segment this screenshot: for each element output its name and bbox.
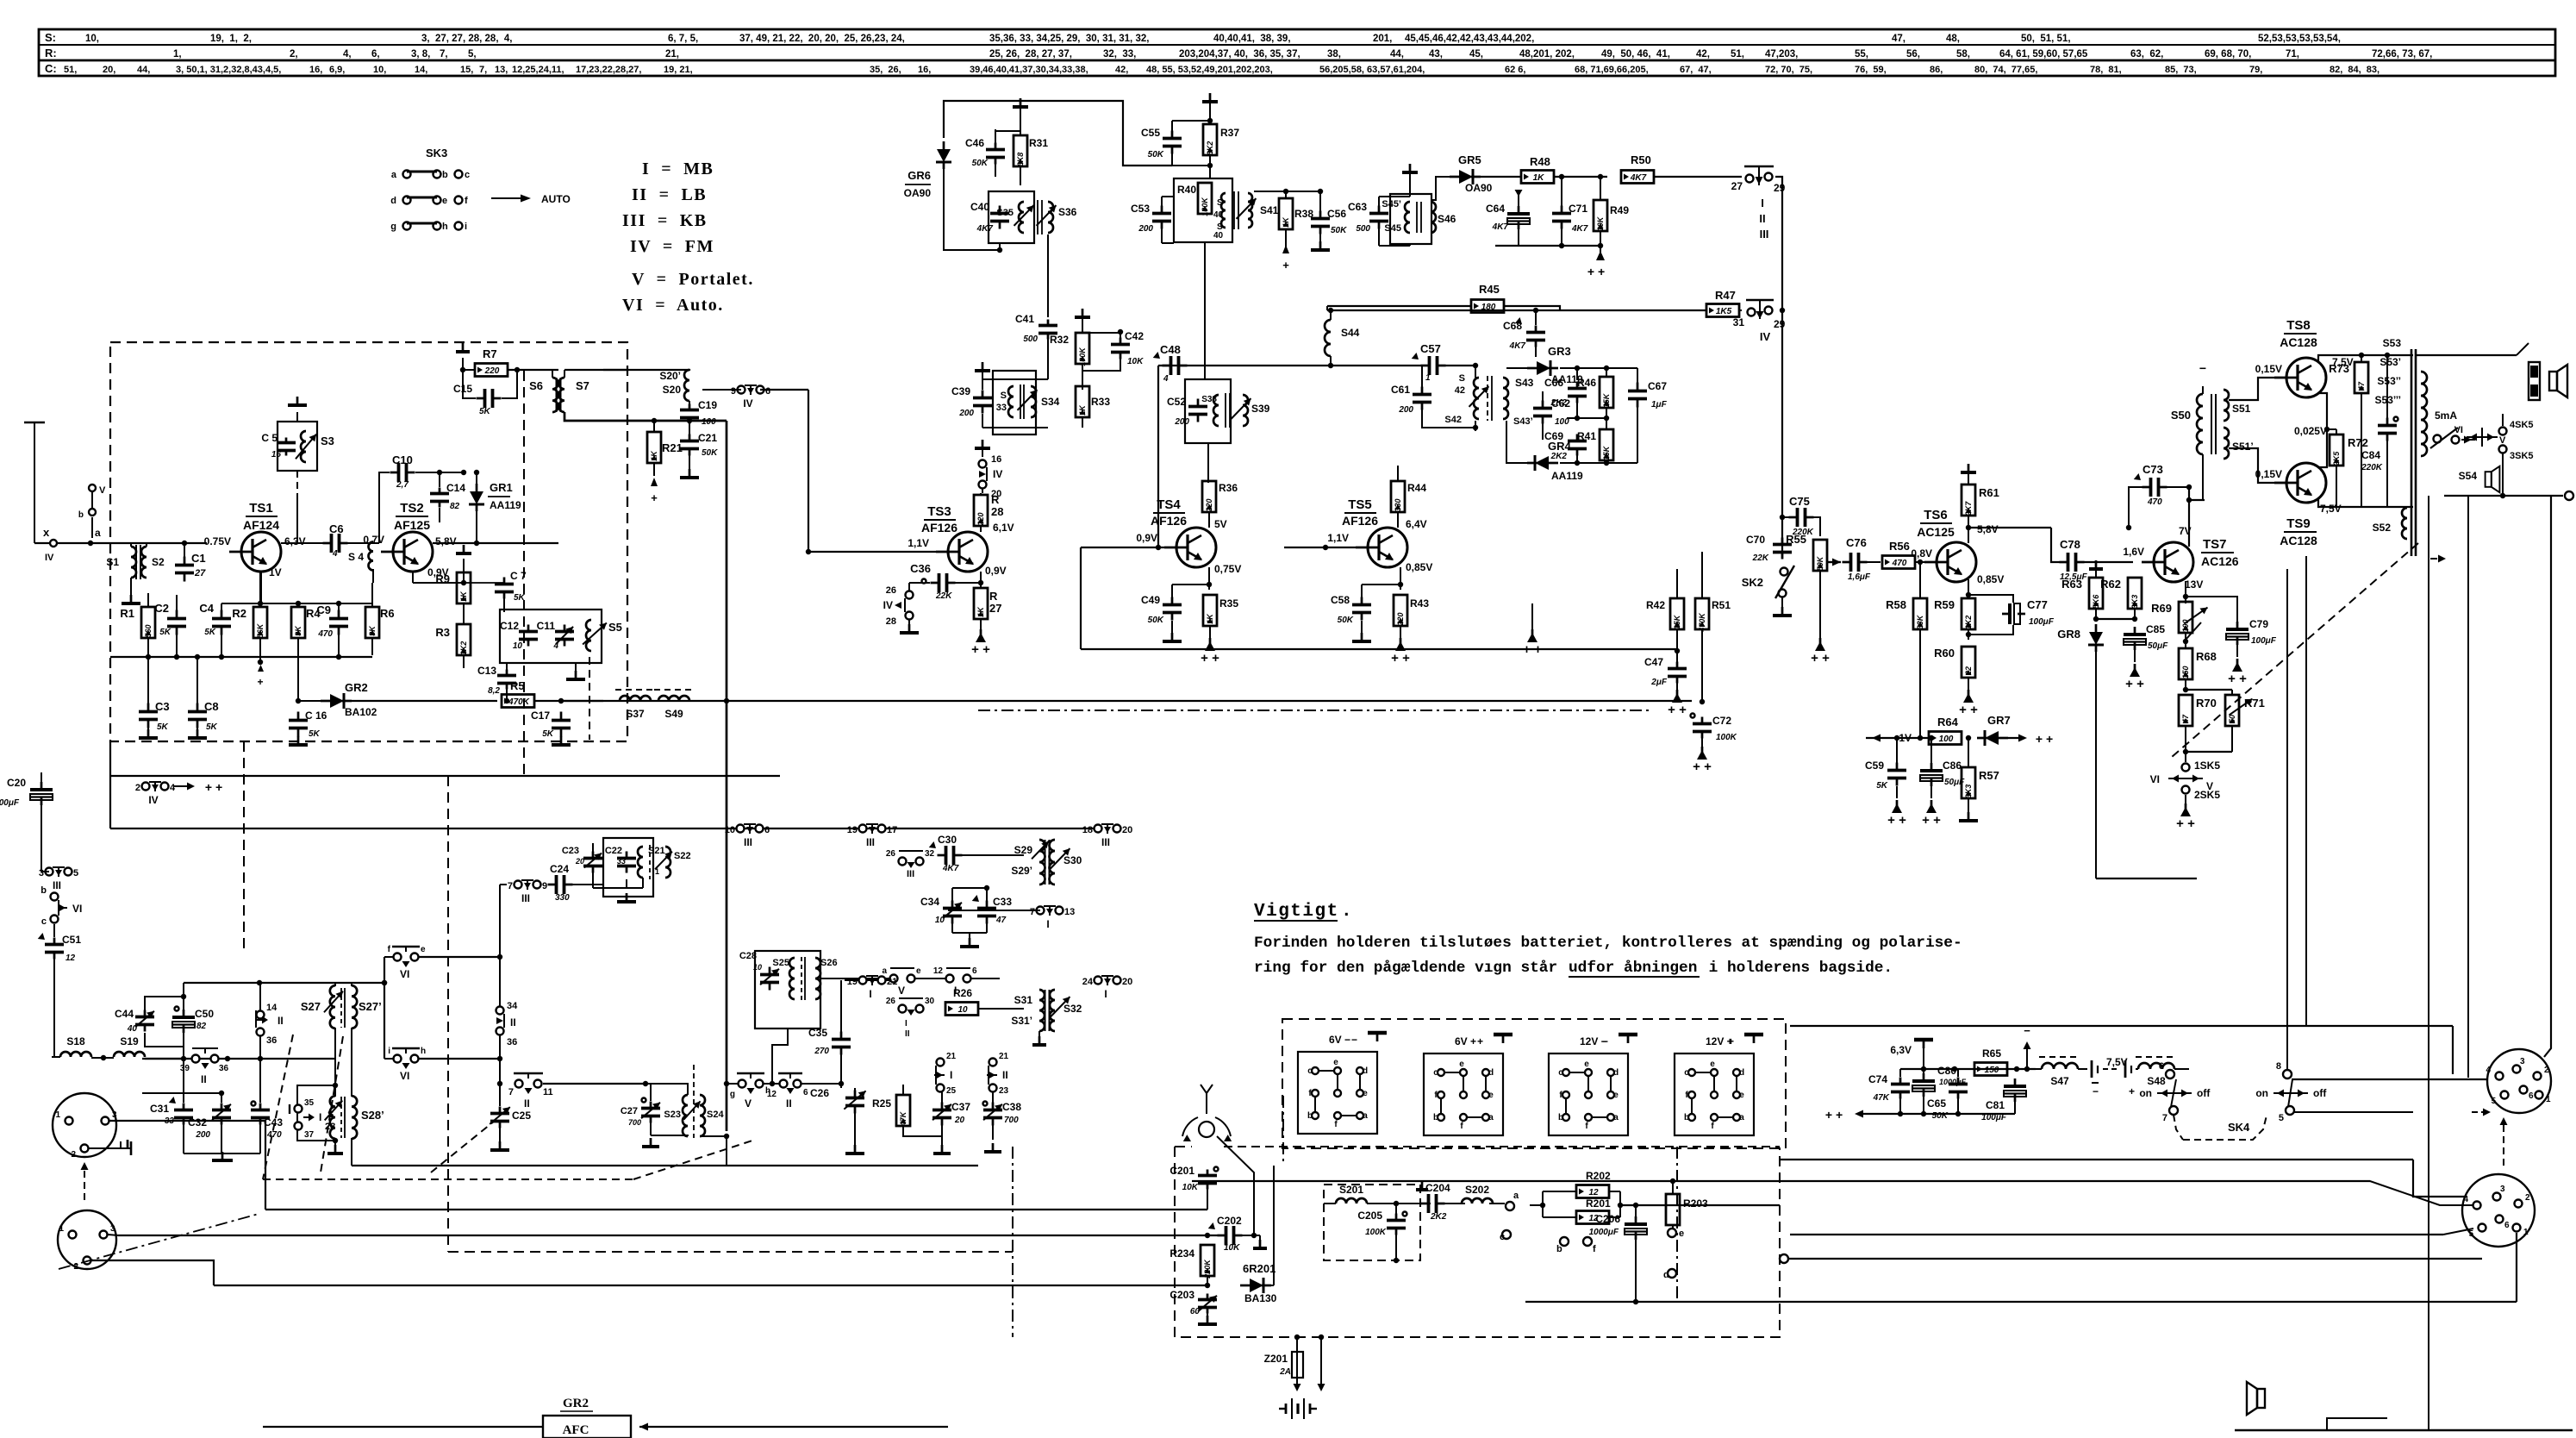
svg-text:C38: C38 bbox=[1002, 1101, 1021, 1113]
svg-text:52,53,53,53,53,54,: 52,53,53,53,53,54, bbox=[2258, 34, 2341, 44]
svg-text:C74: C74 bbox=[1868, 1073, 1887, 1085]
coil S22 bbox=[665, 847, 671, 878]
capacitor C16 bbox=[297, 712, 300, 721]
wire C63 top bbox=[1378, 197, 1380, 207]
wire base TS2 bias bbox=[221, 603, 372, 604]
svg-text:AC125: AC125 bbox=[1917, 525, 1955, 539]
svg-text:c: c bbox=[1500, 1232, 1505, 1242]
svg-text:3: 3 bbox=[2500, 1185, 2505, 1194]
resistor R40 bbox=[1198, 183, 1212, 214]
svg-text:72,66, 73, 67,: 72,66, 73, 67, bbox=[2372, 49, 2432, 59]
svg-text:42,: 42, bbox=[1696, 49, 1710, 59]
svg-text:2: 2 bbox=[2525, 1193, 2530, 1203]
svg-text:II: II bbox=[201, 1073, 207, 1085]
svg-text:45,: 45, bbox=[1469, 49, 1483, 59]
svg-text:43,: 43, bbox=[1429, 49, 1443, 59]
svg-text:S27: S27 bbox=[301, 1000, 321, 1013]
svg-text:Forinden holderen tilslutøes b: Forinden holderen tilslutøes batteriet, … bbox=[1254, 935, 1962, 952]
svg-text:AC126: AC126 bbox=[2201, 554, 2239, 568]
wire from left loop to R37 node bbox=[1123, 164, 1172, 166]
svg-text:6,3V: 6,3V bbox=[1890, 1044, 1912, 1056]
contact 39 II 36 bbox=[192, 1055, 200, 1063]
svg-text:6, 7, 5,: 6, 7, 5, bbox=[668, 34, 698, 44]
wire S51 to TS8 base bbox=[2229, 378, 2286, 400]
svg-text:5K: 5K bbox=[1876, 781, 1888, 791]
svg-text:7,5V: 7,5V bbox=[2320, 503, 2342, 515]
svg-text:33: 33 bbox=[617, 857, 626, 866]
wire TS8 emitter / TS9 emitter join bbox=[2318, 393, 2327, 467]
connector plug right 1 bbox=[2487, 1049, 2551, 1113]
svg-text:R203: R203 bbox=[1683, 1197, 1708, 1210]
svg-text:TS9: TS9 bbox=[2286, 516, 2311, 531]
svg-text:S24: S24 bbox=[707, 1110, 724, 1120]
svg-text:28: 28 bbox=[325, 1122, 335, 1132]
contact 21 I 25 bbox=[937, 1059, 945, 1066]
IF box C12 C11 S5 bbox=[500, 610, 602, 663]
wire TS5 base bbox=[1284, 547, 1356, 548]
svg-text:6,: 6, bbox=[371, 49, 380, 59]
wire to SK5 contacts bbox=[2185, 752, 2186, 762]
svg-text:C22: C22 bbox=[605, 846, 622, 856]
svg-text:2K2: 2K2 bbox=[1550, 452, 1568, 461]
svg-text:d: d bbox=[1613, 1068, 1619, 1078]
svg-text:3: 3 bbox=[110, 1224, 115, 1234]
svg-text:S41: S41 bbox=[1260, 204, 1279, 216]
svg-text:5: 5 bbox=[2468, 1229, 2473, 1239]
svg-text:13V: 13V bbox=[2185, 578, 2203, 591]
inner dashed partition bbox=[523, 371, 525, 776]
contact d bbox=[1668, 1269, 1676, 1278]
svg-text:II: II bbox=[1759, 212, 1765, 225]
coil S202 bbox=[1462, 1198, 1493, 1204]
capacitor C35 bbox=[840, 1032, 843, 1040]
wire bbox=[352, 700, 497, 702]
capacitor C4 bbox=[221, 610, 223, 619]
IF can S21 S22 bbox=[603, 838, 653, 897]
transformer S1 S2 bbox=[131, 547, 136, 578]
svg-text:3SK5: 3SK5 bbox=[2510, 451, 2534, 461]
driver transformer S50 S51 bbox=[2197, 394, 2203, 454]
svg-text:e: e bbox=[1363, 1089, 1368, 1098]
resistor R1 bbox=[141, 607, 155, 638]
dashed arrow into plug1 bbox=[84, 1166, 85, 1200]
capacitor C65 bbox=[1957, 1078, 1960, 1085]
capacitor C56 bbox=[1319, 211, 1322, 219]
resistor R59 bbox=[1962, 598, 1975, 629]
contact b bbox=[1560, 1237, 1569, 1246]
svg-text:e: e bbox=[421, 945, 426, 954]
svg-text:29: 29 bbox=[1774, 318, 1786, 330]
svg-text:R36: R36 bbox=[1219, 482, 1238, 494]
capacitor C33 bbox=[986, 901, 989, 909]
svg-text:b: b bbox=[1558, 1113, 1563, 1122]
svg-text:21: 21 bbox=[946, 1052, 957, 1061]
capacitor C31 bbox=[183, 1104, 185, 1110]
svg-text:3, 50,1, 31,2,32,8,43,4,5,: 3, 50,1, 31,2,32,8,43,4,5, bbox=[176, 65, 281, 75]
resistor R58 bbox=[1913, 598, 1927, 629]
wire TS5 emitter bbox=[1400, 567, 1401, 590]
svg-text:1SK5: 1SK5 bbox=[2194, 760, 2220, 772]
can1 grounds bbox=[626, 879, 627, 888]
svg-text:28: 28 bbox=[886, 616, 896, 627]
bus wire 2 left bbox=[118, 1235, 1218, 1236]
svg-text:R38: R38 bbox=[1294, 208, 1313, 220]
wire into box bbox=[1207, 1204, 1324, 1210]
svg-text:19: 19 bbox=[847, 825, 858, 835]
ground plug1 bbox=[89, 1141, 121, 1148]
wire plug2 pin2 to bus3 bbox=[91, 1260, 214, 1285]
svg-text:5,: 5, bbox=[468, 49, 477, 59]
transformer S27 S27prime bbox=[330, 985, 335, 1028]
svg-text:C28: C28 bbox=[739, 951, 757, 961]
resistor R49 bbox=[1594, 200, 1607, 231]
svg-text:AF124: AF124 bbox=[243, 518, 279, 532]
wire plug1 pin3 bbox=[109, 1121, 265, 1210]
svg-text:R46: R46 bbox=[1577, 377, 1596, 389]
wire S32 up bbox=[1055, 980, 1069, 990]
svg-text:C32: C32 bbox=[188, 1116, 207, 1129]
svg-text:1000μF: 1000μF bbox=[1589, 1228, 1619, 1237]
svg-text:R1: R1 bbox=[120, 607, 134, 620]
svg-text:h: h bbox=[442, 222, 448, 232]
svg-text:on: on bbox=[2139, 1087, 2152, 1099]
capacitor C34 bbox=[951, 901, 954, 909]
svg-text:36: 36 bbox=[219, 1064, 229, 1073]
contact 2SK5 bbox=[2182, 786, 2190, 794]
capacitor C57 bbox=[1421, 365, 1430, 367]
svg-text:200: 200 bbox=[958, 409, 974, 418]
capacitor C202 bbox=[1218, 1235, 1226, 1237]
svg-text:S3: S3 bbox=[321, 435, 334, 447]
IF can box S45 bbox=[1390, 194, 1431, 244]
svg-text:AUTO: AUTO bbox=[541, 193, 571, 205]
wire contacts to caps bbox=[902, 1092, 940, 1102]
svg-text:d: d bbox=[1488, 1068, 1494, 1078]
svg-text:470: 470 bbox=[2147, 497, 2162, 507]
wire y925 contact rail bbox=[52, 828, 728, 830]
contact 7 II 11 bbox=[515, 1080, 523, 1088]
svg-text:h: h bbox=[421, 1047, 426, 1056]
svg-text:C64: C64 bbox=[1486, 203, 1505, 215]
svg-text:39,46,40,41,37,30,34,33,38,: 39,46,40,41,37,30,34,33,38, bbox=[970, 65, 1088, 75]
svg-text:C42: C42 bbox=[1125, 330, 1144, 342]
svg-text:C14: C14 bbox=[446, 482, 465, 494]
svg-text:7: 7 bbox=[1030, 907, 1035, 917]
capacitor C6 bbox=[323, 542, 332, 545]
svg-text:on: on bbox=[2255, 1087, 2268, 1099]
capacitor C81 electrolytic bbox=[2014, 1078, 2017, 1086]
svg-text:R42: R42 bbox=[1646, 599, 1665, 611]
bottom rail y1352 bbox=[352, 1165, 978, 1166]
svg-text:R45: R45 bbox=[1479, 283, 1500, 296]
svg-text:C39: C39 bbox=[951, 385, 970, 397]
riser from left box bbox=[727, 776, 729, 828]
svg-text:C65: C65 bbox=[1927, 1097, 1946, 1110]
resistor R65 bbox=[1974, 1063, 2007, 1076]
svg-text:C78: C78 bbox=[2060, 538, 2080, 551]
svg-text:R: R bbox=[991, 493, 1000, 506]
svg-text:S31: S31 bbox=[1014, 994, 1033, 1006]
capacitor C43 bbox=[259, 1104, 262, 1110]
contact 19 III 17 bbox=[859, 825, 867, 833]
wire top rail switch matrix bbox=[110, 828, 1094, 829]
svg-text:50K: 50K bbox=[972, 159, 989, 168]
svg-text:VI: VI bbox=[2454, 425, 2463, 435]
svg-text:II: II bbox=[786, 1097, 792, 1110]
svg-text:C30: C30 bbox=[938, 834, 957, 846]
wire TS3 collector to can2 bbox=[987, 517, 989, 532]
svg-text:R49: R49 bbox=[1610, 204, 1629, 216]
svg-text:IV: IV bbox=[883, 599, 893, 611]
svg-text:S53’’’: S53’’’ bbox=[2375, 394, 2401, 406]
transformer S31 S32 bbox=[1039, 990, 1045, 1031]
diode GR4 AA119 bbox=[1535, 456, 1549, 470]
capacitor C86 bbox=[1930, 763, 1933, 771]
coil S26 bbox=[815, 958, 820, 999]
riser can2 down bbox=[771, 1028, 773, 1084]
svg-text:1: 1 bbox=[2523, 1228, 2529, 1237]
bottom right corner wiring bbox=[2235, 1429, 2573, 1431]
diode GR6 OA90 bbox=[937, 149, 951, 162]
IF can S25 S26 bbox=[755, 951, 820, 1028]
svg-text:d: d bbox=[390, 196, 396, 206]
capacitor C80 electrolytic bbox=[1923, 1073, 1925, 1081]
svg-text:TS5: TS5 bbox=[1348, 497, 1372, 512]
ground S1 bbox=[130, 578, 132, 595]
svg-text:42,: 42, bbox=[1115, 65, 1128, 75]
svg-text:−: − bbox=[2199, 361, 2206, 375]
svg-text:e: e bbox=[1584, 1060, 1589, 1069]
svg-text:7,: 7, bbox=[440, 49, 448, 59]
wire sw2 bottom to connector bbox=[2317, 1110, 2453, 1111]
wire ground arrow mid bbox=[1531, 629, 1534, 636]
wire to AFC box bbox=[263, 1426, 543, 1428]
svg-text:C 5: C 5 bbox=[261, 432, 278, 444]
svg-text:270: 270 bbox=[814, 1047, 829, 1056]
svg-text:S2: S2 bbox=[152, 556, 165, 568]
bus wire 1 left bbox=[265, 1209, 1207, 1210]
bus wires right side bbox=[1780, 1159, 2413, 1160]
wire can2 top bbox=[982, 378, 1048, 380]
wire can1 top bbox=[592, 843, 594, 852]
rail row3 y1257 bbox=[500, 1083, 646, 1085]
svg-text:off: off bbox=[2197, 1087, 2211, 1099]
coil S38 bbox=[1213, 395, 1219, 426]
riser x845 to S21 can bbox=[602, 776, 604, 828]
svg-text:C:: C: bbox=[45, 62, 57, 75]
svg-text:R57: R57 bbox=[1979, 769, 1999, 782]
svg-text:OA90: OA90 bbox=[904, 187, 932, 199]
svg-text:R6: R6 bbox=[380, 607, 395, 620]
resistor R61 bbox=[1962, 485, 1975, 516]
junction bbox=[258, 660, 263, 665]
svg-text:6: 6 bbox=[2159, 1061, 2164, 1072]
svg-text:S26: S26 bbox=[820, 958, 838, 968]
svg-text:22K: 22K bbox=[935, 591, 952, 601]
wire y900 horizontal bbox=[110, 775, 780, 777]
capacitor C206 bbox=[1635, 1216, 1637, 1224]
wire to TS3 base bbox=[808, 390, 936, 552]
svg-text:R25: R25 bbox=[872, 1097, 891, 1110]
contact f VI e bbox=[394, 953, 402, 961]
wire S27 to S28 bbox=[334, 1028, 336, 1097]
svg-text:R44: R44 bbox=[1407, 482, 1426, 494]
resistor R64 bbox=[1929, 732, 1962, 745]
svg-text:C 16: C 16 bbox=[305, 710, 327, 722]
svg-text:2,7: 2,7 bbox=[396, 480, 409, 490]
svg-text:45,45,46,42,42,43,43,44,202,: 45,45,46,42,42,43,43,44,202, bbox=[1405, 34, 1534, 44]
filter dashed box S201 C205 bbox=[1324, 1185, 1420, 1260]
svg-text:S20’: S20’ bbox=[659, 370, 681, 382]
svg-text:R31: R31 bbox=[1029, 137, 1048, 149]
IF can box S33 S34 bbox=[993, 371, 1036, 435]
svg-text:S51: S51 bbox=[2232, 403, 2251, 415]
capacitor C58 bbox=[1361, 597, 1363, 605]
svg-text:10K: 10K bbox=[1127, 357, 1144, 366]
svg-text:3, 8,: 3, 8, bbox=[411, 49, 430, 59]
resistor R69 preset bbox=[2179, 602, 2192, 633]
capacitor C40 bbox=[999, 206, 1001, 214]
svg-text:GR5: GR5 bbox=[1458, 153, 1481, 166]
svg-text:.: . bbox=[1341, 902, 1352, 922]
svg-text:+: + bbox=[1477, 1035, 1483, 1047]
svg-text:21: 21 bbox=[999, 1052, 1009, 1061]
capacitor C8 bbox=[196, 703, 199, 712]
switch SK3 contacts row d-e-f bbox=[403, 197, 411, 204]
capacitor C12 bbox=[527, 625, 530, 632]
svg-text:R5: R5 bbox=[510, 679, 525, 692]
svg-text:4: 4 bbox=[1163, 374, 1169, 384]
svg-text:ring for den pågældende vıgn s: ring for den pågældende vıgn står bbox=[1254, 960, 1567, 977]
svg-text:12: 12 bbox=[767, 1090, 777, 1099]
svg-text:5K: 5K bbox=[157, 722, 169, 732]
resistor R21 bbox=[647, 432, 661, 463]
svg-text:I = MB: I = MB bbox=[642, 159, 714, 178]
svg-text:2: 2 bbox=[135, 783, 140, 793]
svg-text:AC128: AC128 bbox=[2280, 534, 2317, 547]
risers can2 bbox=[754, 979, 756, 981]
svg-text:C53: C53 bbox=[1131, 203, 1150, 215]
arrow supply left bbox=[174, 785, 191, 787]
svg-text:1K5: 1K5 bbox=[1716, 307, 1732, 316]
coil S33 bbox=[1008, 386, 1014, 417]
svg-text:82: 82 bbox=[196, 1022, 207, 1031]
supply arrow under R49 bbox=[1596, 251, 1605, 260]
svg-text:d: d bbox=[1663, 1270, 1669, 1280]
capacitor C15 bbox=[477, 397, 485, 400]
svg-text:I: I bbox=[319, 1111, 321, 1123]
capacitor C19 bbox=[689, 404, 691, 410]
svg-text:7,: 7, bbox=[479, 65, 487, 75]
wiring C33 C34 bbox=[951, 888, 953, 901]
svg-text:C26: C26 bbox=[810, 1087, 829, 1099]
svg-text:42: 42 bbox=[1455, 385, 1465, 396]
capacitor C74 bbox=[1899, 1078, 1902, 1085]
dashed gang to C25 bbox=[431, 1121, 495, 1172]
svg-text:C25: C25 bbox=[512, 1110, 531, 1122]
svg-text:S30: S30 bbox=[1063, 854, 1082, 866]
svg-text:44,: 44, bbox=[137, 65, 150, 75]
svg-text:C77: C77 bbox=[2027, 598, 2048, 611]
coil S48 bbox=[2138, 1063, 2174, 1069]
capacitor C2 bbox=[176, 610, 178, 619]
svg-text:20: 20 bbox=[954, 1116, 965, 1125]
resistor R9 bbox=[457, 572, 471, 603]
svg-text:C75: C75 bbox=[1789, 495, 1810, 508]
svg-text:10K: 10K bbox=[1182, 1183, 1199, 1192]
svg-text:2: 2 bbox=[71, 1150, 76, 1160]
svg-text:a: a bbox=[95, 527, 101, 539]
svg-text:0,75V: 0,75V bbox=[1214, 563, 1241, 575]
svg-text:e: e bbox=[1613, 1091, 1619, 1100]
svg-text:S5: S5 bbox=[608, 621, 622, 634]
svg-text:C59: C59 bbox=[1865, 760, 1884, 772]
vertical speaker feedback bbox=[2305, 556, 2307, 1026]
svg-text:a: a bbox=[882, 966, 887, 976]
svg-text:1: 1 bbox=[655, 867, 659, 876]
svg-text:21: 21 bbox=[887, 977, 897, 987]
svg-text:C19: C19 bbox=[698, 399, 717, 411]
resistor R28 bbox=[974, 495, 988, 526]
svg-text:22K: 22K bbox=[1752, 553, 1769, 563]
svg-text:0,85V: 0,85V bbox=[1977, 573, 2004, 585]
svg-text:R40: R40 bbox=[1177, 184, 1196, 196]
svg-text:d: d bbox=[1739, 1068, 1744, 1078]
svg-text:470: 470 bbox=[266, 1130, 282, 1140]
contact 7 I 13 bbox=[1037, 907, 1045, 915]
svg-text:10: 10 bbox=[753, 963, 762, 972]
capacitor C24 bbox=[548, 884, 557, 886]
wiring C44 C50 loop bbox=[145, 997, 184, 1010]
svg-text:C4: C4 bbox=[199, 602, 214, 615]
svg-text:100μF: 100μF bbox=[0, 798, 20, 808]
svg-text:16,: 16, bbox=[918, 65, 931, 75]
svg-text:C63: C63 bbox=[1348, 201, 1367, 213]
transistor TS3 AF126 bbox=[948, 532, 988, 572]
svg-text:31: 31 bbox=[1733, 316, 1745, 328]
svg-text:b: b bbox=[1556, 1244, 1562, 1254]
wire bus riser 1 bbox=[726, 421, 728, 1131]
capacitor C47 bbox=[1676, 662, 1679, 669]
svg-text:700: 700 bbox=[1004, 1116, 1019, 1125]
svg-text:TS1: TS1 bbox=[249, 501, 273, 516]
coil S21 bbox=[638, 847, 643, 878]
coil S34 bbox=[1031, 386, 1036, 417]
wire transformer taps bbox=[2421, 355, 2446, 372]
wire TS2 emitter to R9 bbox=[412, 572, 414, 583]
svg-text:C12: C12 bbox=[500, 620, 519, 632]
capacitor C52 bbox=[1197, 399, 1200, 407]
coil S25 bbox=[789, 958, 795, 999]
wires to speaker bottom bbox=[2257, 1358, 2259, 1383]
svg-text:GR6: GR6 bbox=[908, 169, 931, 182]
svg-text:C46: C46 bbox=[965, 137, 984, 149]
battery polarity dashed box bbox=[1282, 1019, 1786, 1148]
resistor R35 bbox=[1203, 595, 1217, 626]
wire GR6 to can bbox=[944, 191, 1000, 250]
wire TS7 collector bbox=[2188, 487, 2190, 547]
svg-text:VI: VI bbox=[400, 968, 409, 980]
wire NFB bbox=[2096, 878, 2197, 879]
svg-text:1: 1 bbox=[59, 1224, 64, 1234]
svg-text:V = Portalet.: V = Portalet. bbox=[632, 270, 754, 289]
svg-text:2: 2 bbox=[2544, 1066, 2549, 1075]
wire S29 top bbox=[1039, 828, 1040, 840]
wire TS3 emitter bbox=[980, 572, 982, 588]
svg-text:100: 100 bbox=[1939, 735, 1954, 744]
svg-text:S22: S22 bbox=[674, 851, 691, 861]
svg-text:0,9V: 0,9V bbox=[985, 565, 1007, 577]
